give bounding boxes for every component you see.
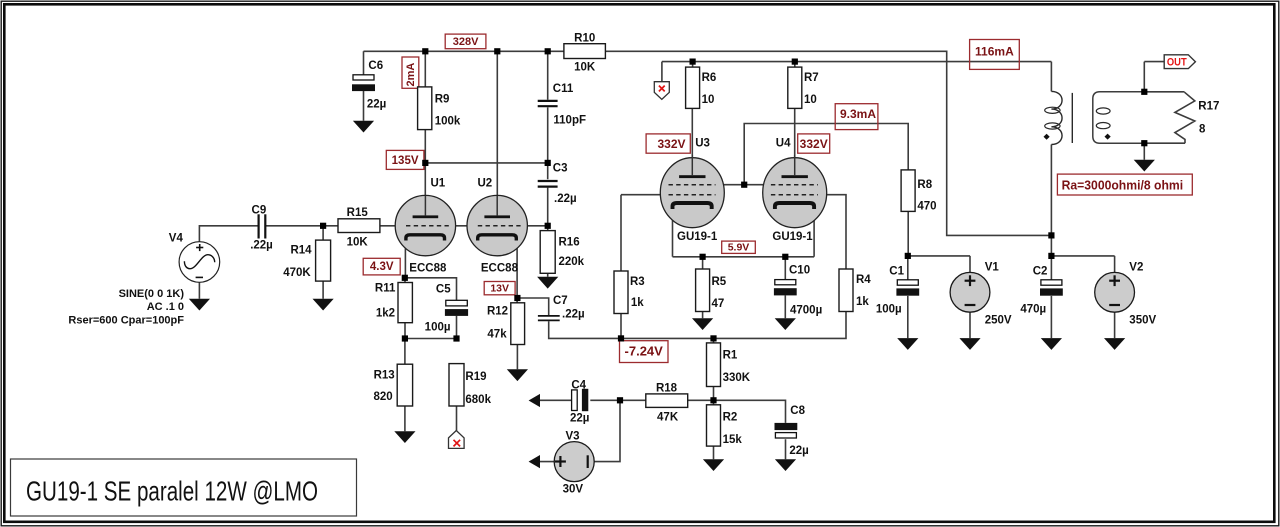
svg-text:5.9V: 5.9V: [728, 242, 750, 254]
svg-text:R12: R12: [487, 306, 508, 318]
svg-text:470K: 470K: [283, 267, 311, 279]
svg-text:Rser=600 Cpar=100pF: Rser=600 Cpar=100pF: [68, 314, 184, 326]
svg-text:U3: U3: [695, 137, 710, 149]
svg-text:135V: 135V: [392, 155, 419, 167]
svg-text:C9: C9: [252, 205, 267, 217]
svg-text:10: 10: [702, 94, 715, 106]
svg-text:Ra=3000ohmi/8 ohmi: Ra=3000ohmi/8 ohmi: [1062, 178, 1184, 192]
svg-text:15k: 15k: [723, 434, 743, 446]
svg-text:C10: C10: [789, 264, 810, 276]
svg-text:2mA: 2mA: [405, 63, 417, 87]
svg-text:C8: C8: [790, 405, 805, 417]
svg-text:R18: R18: [656, 383, 678, 395]
svg-text:R2: R2: [723, 412, 738, 424]
svg-text:R7: R7: [804, 72, 819, 84]
svg-text:332V: 332V: [800, 137, 828, 151]
svg-text:V3: V3: [565, 430, 579, 442]
svg-text:328V: 328V: [453, 36, 479, 48]
svg-text:-7.24V: -7.24V: [625, 344, 664, 359]
svg-text:.22µ: .22µ: [562, 309, 585, 321]
svg-text:U1: U1: [431, 178, 446, 190]
svg-text:R1: R1: [723, 350, 738, 362]
svg-text:100µ: 100µ: [876, 304, 902, 316]
svg-text:C4: C4: [571, 379, 586, 391]
svg-text:V2: V2: [1129, 261, 1143, 273]
svg-text:10: 10: [804, 94, 817, 106]
svg-text:22µ: 22µ: [367, 99, 386, 111]
svg-text:10K: 10K: [574, 62, 596, 74]
svg-text:1k: 1k: [631, 297, 644, 309]
svg-text:100µ: 100µ: [425, 321, 451, 333]
svg-text:V4: V4: [169, 233, 184, 245]
svg-text:C3: C3: [553, 163, 568, 175]
svg-text:47k: 47k: [487, 328, 507, 340]
svg-text:AC .1 0: AC .1 0: [147, 301, 184, 313]
svg-text:220k: 220k: [559, 256, 585, 268]
svg-text:R10: R10: [574, 32, 595, 44]
svg-text:U4: U4: [776, 137, 791, 149]
svg-text:V1: V1: [985, 261, 1000, 273]
svg-text:.22µ: .22µ: [554, 193, 577, 205]
svg-text:470µ: 470µ: [1020, 304, 1046, 316]
svg-text:4.3V: 4.3V: [370, 261, 394, 273]
svg-text:R13: R13: [374, 369, 395, 381]
svg-text:22µ: 22µ: [570, 413, 589, 425]
svg-text:R19: R19: [465, 371, 486, 383]
svg-text:C11: C11: [553, 83, 574, 95]
svg-text:332V: 332V: [657, 137, 685, 151]
svg-text:R3: R3: [630, 276, 645, 288]
svg-text:30V: 30V: [563, 484, 584, 496]
svg-text:R16: R16: [559, 236, 580, 248]
svg-text:C1: C1: [889, 265, 904, 277]
svg-text:820: 820: [374, 391, 393, 403]
svg-text:R17: R17: [1198, 101, 1219, 113]
svg-text:350V: 350V: [1129, 314, 1156, 326]
svg-text:R6: R6: [702, 72, 717, 84]
svg-text:C5: C5: [436, 284, 451, 296]
svg-text:13V: 13V: [490, 282, 509, 294]
svg-text:47K: 47K: [657, 412, 679, 424]
svg-text:SINE(0 0 1K): SINE(0 0 1K): [119, 288, 185, 300]
svg-text:C6: C6: [368, 60, 383, 72]
svg-text:ECC88: ECC88: [481, 263, 519, 275]
svg-text:R11: R11: [375, 283, 396, 295]
svg-text:.22µ: .22µ: [250, 240, 273, 252]
svg-text:100k: 100k: [435, 116, 461, 128]
svg-text:680k: 680k: [465, 394, 491, 406]
svg-text:1k2: 1k2: [376, 308, 395, 320]
svg-text:330K: 330K: [723, 372, 751, 384]
svg-text:47: 47: [712, 298, 725, 310]
svg-text:R8: R8: [917, 179, 932, 191]
svg-text:GU19-1: GU19-1: [677, 231, 718, 243]
svg-text:R14: R14: [290, 245, 312, 257]
svg-text:10K: 10K: [347, 237, 369, 249]
svg-text:22µ: 22µ: [789, 445, 808, 457]
svg-text:C7: C7: [553, 295, 568, 307]
svg-text:R15: R15: [347, 207, 369, 219]
svg-text:GU19-1: GU19-1: [772, 231, 813, 243]
svg-text:470: 470: [917, 201, 936, 213]
svg-text:R9: R9: [435, 94, 450, 106]
svg-text:4700µ: 4700µ: [790, 305, 822, 317]
svg-text:116mA: 116mA: [975, 45, 1014, 59]
svg-text:1k: 1k: [856, 296, 869, 308]
svg-text:C2: C2: [1033, 265, 1048, 277]
svg-text:R5: R5: [712, 276, 727, 288]
svg-text:U2: U2: [478, 178, 493, 190]
svg-text:ECC88: ECC88: [409, 263, 447, 275]
svg-text:250V: 250V: [985, 314, 1012, 326]
svg-text:110pF: 110pF: [553, 114, 586, 126]
svg-text:8: 8: [1199, 124, 1206, 136]
svg-text:9.3mA: 9.3mA: [840, 107, 876, 121]
svg-text:GU19-1 SE paralel 12W @LMO: GU19-1 SE paralel 12W @LMO: [26, 476, 318, 507]
svg-text:OUT: OUT: [1167, 57, 1187, 69]
svg-text:R4: R4: [856, 274, 871, 286]
